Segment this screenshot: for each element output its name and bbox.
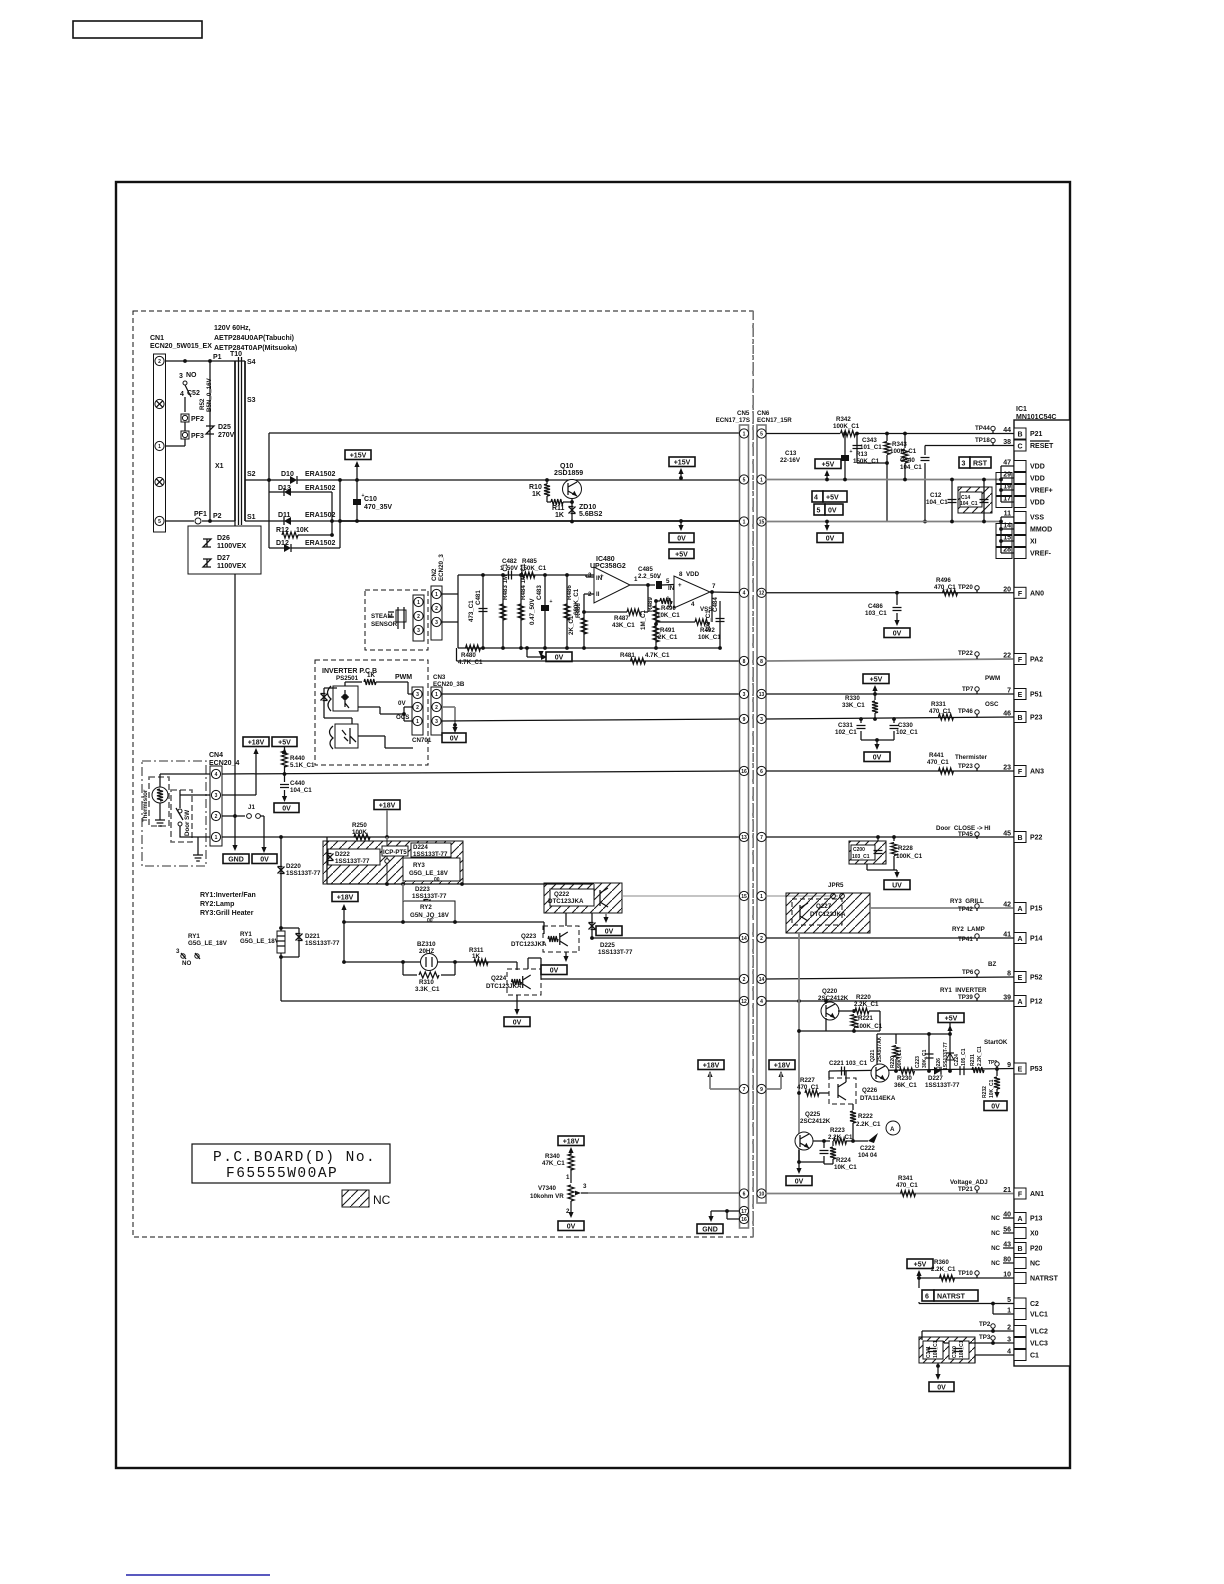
svg-text:NATRST: NATRST (1030, 1276, 1059, 1283)
svg-text:Thermister: Thermister (955, 754, 988, 761)
power box +5V p51 (863, 674, 889, 684)
wire PWM row to rail (442, 693, 740, 695)
wire c343 r343 join (857, 462, 887, 464)
svg-text:NC: NC (991, 1260, 1000, 1267)
svg-text:Q222: Q222 (554, 891, 570, 898)
svg-text:102_C1: 102_C1 (835, 729, 857, 736)
svg-text:1_50V: 1_50V (500, 565, 519, 572)
wire start row (829, 1069, 1014, 1072)
svg-text:23: 23 (1003, 765, 1011, 772)
svg-text:10K_C1: 10K_C1 (834, 1164, 857, 1171)
power box 0V opamp (546, 652, 572, 662)
svg-text:Q220: Q220 (822, 988, 838, 995)
power box 0V q224 (504, 1017, 530, 1027)
svg-text:ECN17_15R: ECN17_15R (757, 417, 792, 424)
wire J1 to 0V (260, 815, 264, 817)
svg-text:R486: R486 (566, 585, 573, 600)
capacitor C484 (719, 601, 721, 648)
svg-text:105_C1: 105_C1 (961, 1048, 967, 1066)
resistor R481 series (631, 658, 646, 664)
wire to Q223 base (543, 922, 545, 934)
wire primary top (235, 360, 245, 362)
svg-text:CN4: CN4 (209, 752, 223, 759)
svg-text:1: 1 (743, 519, 746, 525)
wire -in2 with R490 (673, 600, 675, 602)
svg-text:CN5: CN5 (737, 410, 750, 417)
svg-text:Q221: Q221 (870, 1050, 876, 1062)
svg-text:P23: P23 (1030, 715, 1043, 722)
svg-text:+18V: +18V (774, 1062, 791, 1069)
svg-text:NO: NO (182, 960, 191, 967)
svg-text:II: II (596, 591, 600, 598)
svg-text:TP45: TP45 (958, 831, 973, 838)
svg-text:CN701: CN701 (412, 737, 432, 744)
svg-text:RY1: RY1 (188, 933, 200, 940)
svg-text:F: F (1018, 1192, 1023, 1199)
IC1 pin 7 P51 (1014, 689, 1026, 700)
wire opto loop (324, 687, 337, 689)
svg-text:IC480: IC480 (596, 556, 615, 563)
svg-text:470_C1: 470_C1 (896, 1182, 918, 1189)
wire Q223 emitter to 0V (565, 952, 567, 960)
svg-text:BZ310: BZ310 (417, 941, 436, 948)
wire RY3 grill row (870, 907, 1014, 909)
transistor Q221 (871, 1064, 889, 1082)
svg-text:C200: C200 (853, 847, 865, 853)
svg-text:R250: R250 (352, 822, 367, 829)
svg-text:C223: C223 (915, 1056, 921, 1068)
svg-text:D223: D223 (415, 886, 430, 893)
wire row to q226 left (828, 1071, 830, 1078)
svg-text:PF2: PF2 (191, 416, 204, 423)
svg-text:RESET: RESET (1030, 443, 1054, 450)
hatched cap C200 (849, 841, 886, 864)
top-left label box (73, 21, 202, 38)
svg-text:3: 3 (417, 628, 420, 634)
svg-text:1: 1 (1007, 1308, 1011, 1315)
power box 0V vr (558, 1221, 584, 1231)
svg-text:44: 44 (1003, 427, 1011, 434)
svg-text:3: 3 (416, 692, 419, 698)
svg-text:AN3: AN3 (1030, 769, 1044, 776)
svg-text:2.2K_C1: 2.2K_C1 (977, 1046, 983, 1066)
svg-text:RY3: RY3 (413, 862, 425, 869)
svg-text:ERA1502: ERA1502 (305, 485, 335, 492)
wire CN2 pin3 to bottom bus (442, 621, 458, 623)
svg-text:4: 4 (691, 601, 695, 608)
svg-text:A: A (1017, 936, 1022, 943)
svg-text:R487: R487 (614, 615, 629, 622)
connector CN701 (412, 687, 423, 735)
svg-text:39: 39 (1003, 995, 1011, 1002)
wire q225 emitter (798, 1150, 800, 1162)
svg-text:OSC: OSC (985, 701, 999, 708)
surge absorber box D26 D27 (188, 526, 261, 574)
svg-text:45: 45 (1003, 831, 1011, 838)
svg-text:VREF-: VREF- (1030, 551, 1052, 558)
svg-text:B: B (1017, 835, 1022, 842)
power box 0V left rail (669, 533, 694, 543)
svg-text:B: B (1017, 1246, 1022, 1253)
net ref 4 +5V (812, 491, 823, 502)
svg-text:AN1: AN1 (1030, 1191, 1044, 1198)
wire OCS row to rail (442, 719, 740, 721)
svg-text:RY3 GRILL: RY3 GRILL (950, 898, 984, 905)
resistor R220 (838, 1010, 852, 1012)
svg-text:150K_C1: 150K_C1 (853, 458, 880, 465)
wire S2 row (245, 479, 269, 481)
svg-text:P2: P2 (213, 513, 222, 520)
svg-text:ECN20_3: ECN20_3 (438, 554, 445, 581)
svg-text:2.2K_C1: 2.2K_C1 (854, 1001, 879, 1008)
svg-text:R310: R310 (419, 979, 434, 986)
svg-text:6: 6 (760, 769, 763, 775)
svg-text:100K_C1: 100K_C1 (833, 423, 860, 430)
resistor R250 series in row837 (354, 834, 370, 840)
svg-text:CN3: CN3 (433, 674, 446, 681)
wire RY1 row to rail (281, 1000, 740, 1002)
svg-text:R232: R232 (982, 1086, 988, 1098)
svg-text:P52: P52 (1030, 975, 1043, 982)
thermistor assembly dash-dot box (142, 761, 206, 866)
wire RY1 inverter row (766, 1000, 1014, 1002)
wire P22 door row (766, 836, 1014, 838)
svg-text:P13: P13 (1030, 1216, 1043, 1223)
svg-text:38: 38 (1003, 439, 1011, 446)
resistor R343 (886, 434, 888, 442)
svg-text:ECN20_5W015_EX: ECN20_5W015_EX (150, 343, 212, 350)
svg-text:TP22: TP22 (958, 650, 973, 657)
svg-text:A: A (890, 1126, 895, 1133)
svg-text:100K_C1: 100K_C1 (856, 1023, 883, 1030)
svg-text:+15V: +15V (674, 459, 691, 466)
wire to CN1 pin1 (184, 439, 186, 446)
svg-text:XI: XI (1030, 539, 1037, 546)
hatched relay box RY3 (323, 841, 463, 884)
svg-text:1: 1 (435, 592, 438, 598)
hatched box Q222 (544, 883, 622, 913)
IC1 pin 20 AN0 (1014, 587, 1026, 598)
svg-text:10: 10 (759, 1191, 765, 1197)
svg-text:3: 3 (435, 719, 438, 725)
svg-text:R441: R441 (929, 752, 944, 759)
svg-text:2K_C1: 2K_C1 (658, 634, 678, 641)
svg-text:104 04: 104 04 (858, 1152, 877, 1159)
diode D221 (279, 926, 283, 930)
svg-text:3: 3 (1007, 1337, 1011, 1344)
svg-text:5.6BS2: 5.6BS2 (579, 511, 602, 518)
svg-text:RST: RST (973, 461, 988, 468)
wire PA2 row (766, 659, 1014, 661)
svg-text:2SC2412K: 2SC2412K (800, 1118, 831, 1125)
IC1 VDD pin block (1014, 461, 1026, 472)
wire CN4-2 to J1 (222, 815, 245, 817)
svg-text:42: 42 (1003, 902, 1011, 909)
svg-text:V7340: V7340 (538, 1185, 556, 1192)
svg-text:1SS133T-77: 1SS133T-77 (943, 1042, 949, 1070)
svg-text:C: C (1017, 444, 1022, 451)
wire c200 r228 join (866, 864, 868, 870)
IC1 pin 38 RESET (1014, 440, 1026, 451)
svg-text:R490: R490 (661, 605, 676, 612)
resistor R310 parallel (403, 962, 455, 975)
power box 0V vss (817, 533, 843, 543)
svg-text:C440: C440 (290, 780, 305, 787)
svg-text:Q227: Q227 (816, 903, 832, 910)
svg-text:0V: 0V (677, 535, 686, 542)
transistor Q226 dashed (829, 1078, 856, 1104)
svg-text:9: 9 (760, 1087, 763, 1093)
rail separator dashed (752, 311, 754, 1237)
svg-text:A: A (1017, 999, 1022, 1006)
svg-text:DTC123JKA: DTC123JKA (548, 898, 584, 905)
svg-text:10: 10 (1003, 1272, 1011, 1279)
transistor Q225 (795, 1132, 813, 1150)
svg-text:1: 1 (566, 1174, 570, 1181)
wire AN3 row (766, 770, 1014, 772)
resistor R480 series (466, 645, 481, 651)
svg-text:C1: C1 (1030, 1353, 1039, 1360)
0V tap (525, 646, 529, 650)
zener ZD10 (571, 498, 573, 522)
svg-text:2.2_50V: 2.2_50V (638, 573, 662, 580)
wire P23 OSC row (766, 717, 1014, 719)
wire c331 c330 join (861, 739, 894, 741)
svg-text:0.47_50V: 0.47_50V (529, 598, 536, 625)
svg-text:D227: D227 (928, 1075, 943, 1082)
resistor R489 (655, 601, 657, 648)
main dashed enclosure (133, 311, 753, 1237)
svg-text:4.7K_C1: 4.7K_C1 (458, 659, 483, 666)
resistor R484 (520, 575, 522, 648)
svg-text:104_C1: 104_C1 (960, 501, 978, 507)
wire 0V mid (358, 706, 380, 708)
svg-text:R484 1M_C1: R484 1M_C1 (520, 563, 527, 600)
svg-text:ERA1502: ERA1502 (305, 540, 335, 547)
svg-text:473_C1: 473_C1 (468, 600, 475, 622)
svg-text:2: 2 (417, 614, 420, 620)
capacitor C440 (284, 774, 286, 782)
svg-text:100K_C1: 100K_C1 (896, 853, 923, 860)
wire VR bottom (570, 1201, 572, 1216)
capacitor C330 (893, 719, 895, 723)
svg-text:TP44: TP44 (975, 425, 990, 432)
svg-text:22-16V: 22-16V (780, 457, 801, 464)
svg-text:1: 1 (416, 719, 419, 725)
wire VLC3 row (944, 1342, 1014, 1344)
svg-text:33K_C1: 33K_C1 (842, 702, 865, 709)
svg-text:0V: 0V (260, 856, 269, 863)
svg-text:D221: D221 (305, 933, 320, 940)
diode D227 (934, 1067, 941, 1075)
resistor R231 (972, 1067, 984, 1073)
svg-text:1SS133T-77: 1SS133T-77 (305, 940, 340, 947)
resistor R341 series (901, 1191, 916, 1197)
svg-text:VLC2: VLC2 (1030, 1329, 1048, 1336)
resistor R491 (653, 626, 659, 642)
svg-text:8: 8 (760, 659, 763, 665)
svg-text:104_C1: 104_C1 (900, 464, 922, 471)
svg-text:22: 22 (1003, 653, 1011, 660)
fuse PF2 (181, 414, 189, 422)
IC1 pin 8 P52 (1014, 972, 1026, 983)
svg-text:+: + (850, 449, 853, 455)
capacitor C485 (656, 581, 662, 589)
potentiometer V7340 (568, 1185, 574, 1201)
door switch symbol (178, 809, 182, 813)
power box +18V ry2 (332, 892, 358, 902)
svg-text:PWM: PWM (985, 675, 1000, 682)
svg-text:F: F (1018, 591, 1023, 598)
steam sensor connector (413, 595, 424, 641)
wire relay bottom bus (327, 883, 594, 885)
varistor D26 (203, 539, 211, 547)
svg-text:D222: D222 (335, 851, 350, 858)
power box 0V q225 (786, 1176, 812, 1186)
svg-text:P20: P20 (1030, 1246, 1043, 1253)
svg-text:R440: R440 (290, 755, 305, 762)
svg-text:G5G_LE_18V: G5G_LE_18V (240, 938, 280, 945)
resistor R485 series (521, 572, 535, 578)
IC1 pin 42 P15 (1014, 903, 1026, 914)
wire +18V drop to buzzer row (343, 922, 345, 962)
wire CN1 pin2 row (165, 360, 235, 362)
wire OCS loop (351, 718, 353, 724)
svg-text:G5G_LE_18V: G5G_LE_18V (409, 870, 449, 877)
wire q220 emitter (825, 1018, 827, 1031)
svg-text:C224: C224 (954, 1054, 960, 1066)
svg-text:Q226: Q226 (862, 1087, 878, 1094)
wire CN701-2 (404, 706, 412, 708)
outer border frame (116, 182, 1070, 1468)
svg-text:AETP284U0AP(Tabuchi): AETP284U0AP(Tabuchi) (214, 335, 294, 342)
power box +18V vr (558, 1136, 584, 1146)
NC legend (342, 1190, 369, 1207)
svg-text:3: 3 (583, 1183, 587, 1190)
resistor R360 (916, 1270, 921, 1276)
svg-text:IC1: IC1 (1016, 406, 1027, 413)
wire q226 up (845, 1071, 847, 1082)
optocoupler PC1 (328, 686, 332, 711)
svg-text:7: 7 (712, 583, 716, 590)
wire switch branch (184, 397, 186, 412)
svg-text:2: 2 (760, 936, 763, 942)
svg-text:R224: R224 (836, 1157, 851, 1164)
IC1 pin 5 C2 (1014, 1298, 1026, 1309)
steam sensor element (388, 607, 404, 629)
svg-text:R360: R360 (934, 1259, 949, 1266)
hatched cap box C341 C310 (921, 1331, 923, 1340)
hatched cap box C12 C14 (951, 480, 953, 522)
transistor Q220 (821, 1002, 839, 1020)
svg-text:2: 2 (416, 705, 419, 711)
svg-text:ECN17_17S: ECN17_17S (716, 417, 750, 424)
resistor R224 (832, 1141, 834, 1146)
svg-text:470_C1: 470_C1 (929, 708, 951, 715)
svg-text:9: 9 (743, 717, 746, 723)
svg-text:PF3: PF3 (191, 433, 204, 440)
power box 0V c440 (274, 803, 299, 813)
svg-text:10K: 10K (296, 527, 309, 534)
svg-text:VDD: VDD (1030, 464, 1045, 471)
svg-text:TP39: TP39 (958, 994, 973, 1001)
svg-text:+18V: +18V (703, 1062, 720, 1069)
IC1 pin 3 VLC3 (1014, 1338, 1026, 1349)
svg-text:F65555W00AP: F65555W00AP (226, 1166, 338, 1182)
wire (184, 422, 186, 431)
svg-text:3: 3 (588, 572, 592, 579)
svg-text:21: 21 (1003, 1187, 1011, 1194)
svg-text:RY1: RY1 (240, 931, 252, 938)
wire PF1 row / CN1 pin5 row (165, 520, 194, 522)
svg-text:1100VEX: 1100VEX (217, 543, 247, 550)
svg-text:2: 2 (215, 814, 218, 820)
resistor R496 series (943, 590, 958, 596)
svg-text:R489: R489 (647, 597, 654, 612)
svg-text:0V: 0V (567, 1223, 576, 1230)
svg-text:0V: 0V (873, 754, 882, 761)
0V arrow from VSS (826, 522, 828, 530)
svg-text:C13: C13 (785, 450, 797, 457)
svg-text:120V 60Hz,: 120V 60Hz, (214, 325, 251, 332)
thermistor dashed box (149, 777, 169, 826)
svg-text:3: 3 (435, 620, 438, 626)
svg-text:+18V: +18V (563, 1138, 580, 1145)
resistor R331 series (939, 714, 954, 720)
svg-text:R480: R480 (461, 652, 476, 659)
svg-text:R220: R220 (856, 994, 871, 1001)
svg-text:12: 12 (741, 999, 747, 1005)
resistor R13 (904, 434, 906, 449)
svg-text:C10: C10 (364, 496, 377, 503)
PCB number box (192, 1144, 390, 1183)
resistor R223 (824, 1140, 830, 1142)
svg-text:470_C1: 470_C1 (927, 759, 949, 766)
wire top analog bus (458, 574, 594, 576)
svg-text:5: 5 (743, 477, 746, 483)
svg-text:TP3: TP3 (979, 1334, 991, 1341)
svg-text:470_35V: 470_35V (364, 504, 392, 511)
svg-text:ERA1502: ERA1502 (305, 512, 335, 519)
varistor D25 (206, 426, 214, 434)
svg-text:0V: 0V (826, 535, 835, 542)
svg-text:D225: D225 (600, 942, 615, 949)
power box 0V osc (864, 752, 890, 762)
svg-text:RY1:Inverter/Fan: RY1:Inverter/Fan (200, 892, 256, 899)
svg-text:+5V: +5V (826, 495, 839, 502)
svg-text:16: 16 (741, 1217, 747, 1223)
diode D13 (268, 480, 270, 492)
svg-text:TP2: TP2 (979, 1321, 991, 1328)
svg-text:4: 4 (760, 999, 763, 1005)
thermistor symbol (152, 787, 168, 803)
fuse PF3 (181, 431, 189, 439)
svg-text:9: 9 (1007, 1062, 1011, 1069)
svg-text:2SA937AK: 2SA937AK (877, 1036, 883, 1062)
wire CN4-4 row to rail (222, 771, 740, 774)
svg-text:S1: S1 (247, 514, 256, 521)
svg-text:+18V: +18V (337, 894, 354, 901)
resistor R228 (893, 837, 895, 841)
svg-text:VSS: VSS (1030, 515, 1044, 522)
svg-text:RY2 LAMP: RY2 LAMP (952, 926, 985, 933)
net A terminal (853, 1140, 868, 1142)
wire S1 output row to rail (340, 520, 740, 522)
svg-text:C481: C481 (475, 590, 482, 605)
wire opto2 (335, 724, 358, 748)
steam sensor dashed box (365, 590, 428, 650)
ground below door (197, 837, 199, 851)
